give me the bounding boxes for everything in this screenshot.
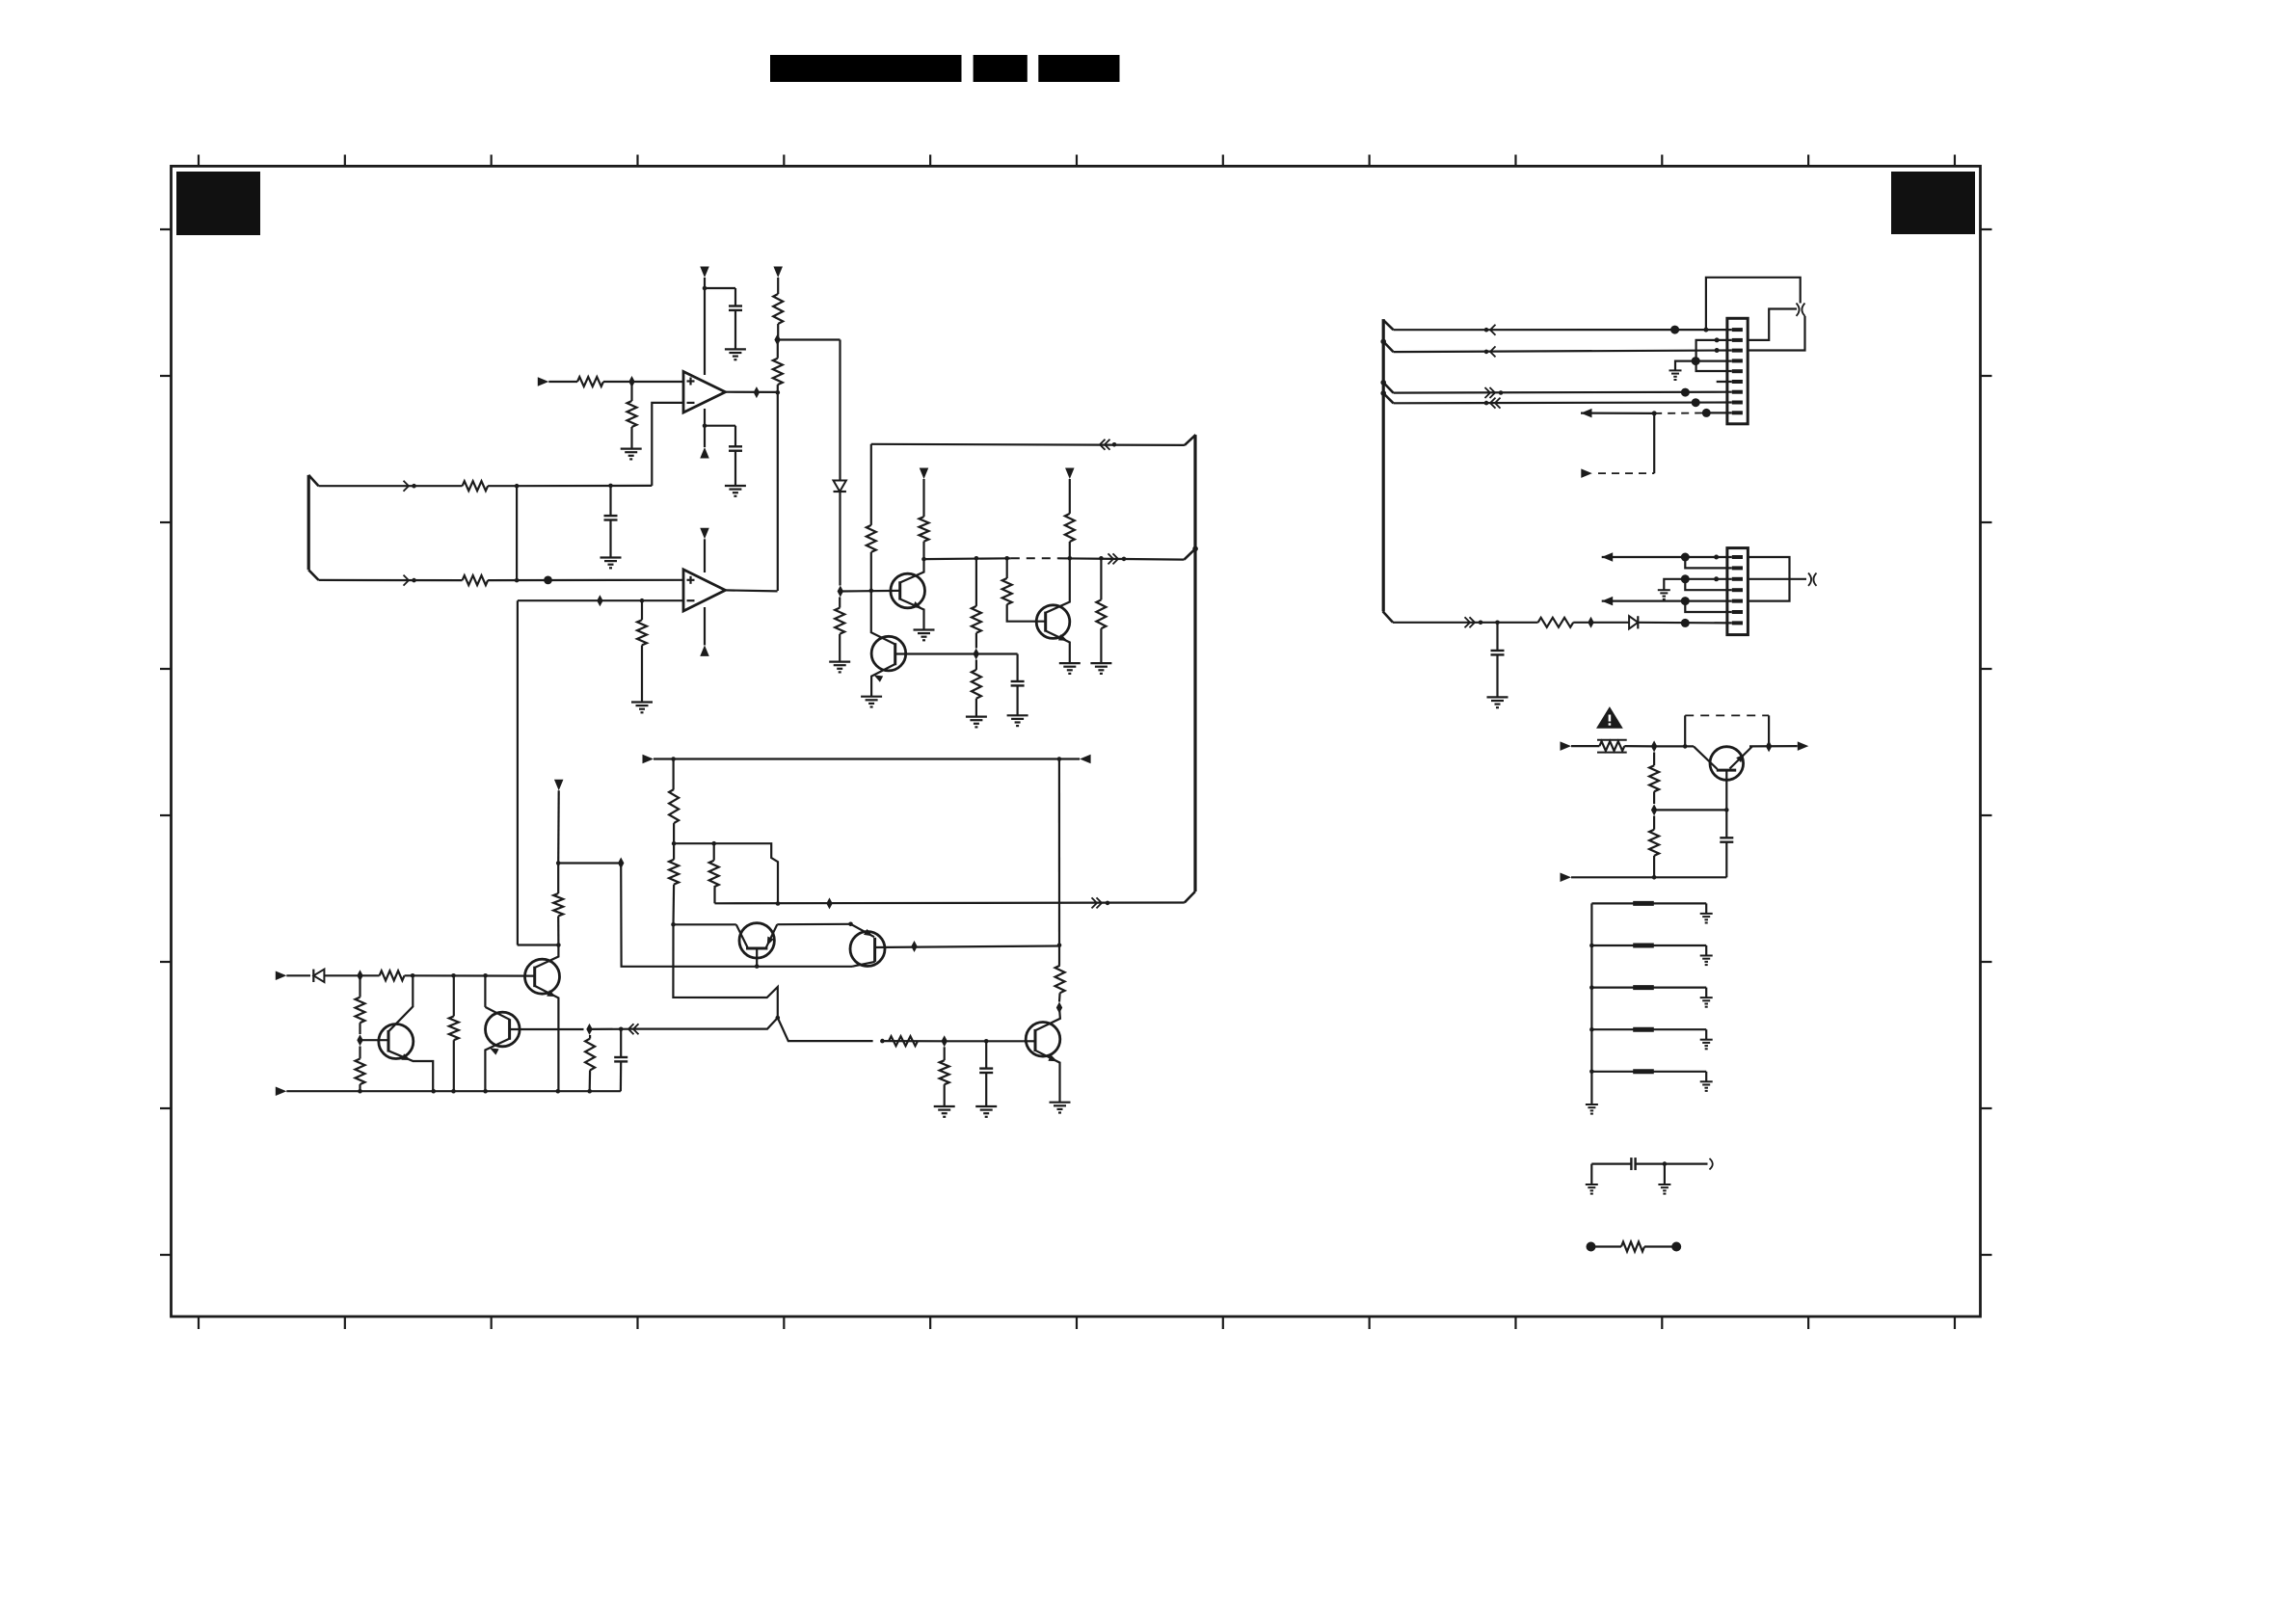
junction dot J19	[776, 1016, 781, 1021]
Q7 base row	[1023, 1040, 1035, 1042]
resistor R20	[557, 917, 559, 945]
resistor R11	[972, 606, 981, 633]
resistor R26	[1058, 945, 1060, 966]
bus bottom chamfer	[1185, 891, 1195, 903]
Q8 emitter	[766, 924, 777, 947]
junction dot J25	[556, 861, 561, 865]
ladder bus	[1590, 903, 1592, 1104]
diode D2	[312, 970, 314, 982]
resistor R23	[453, 975, 455, 1016]
transistor Q3	[1036, 605, 1070, 639]
ground for C2	[725, 485, 746, 487]
pin2 loop right	[1748, 309, 1797, 340]
ground ladder bus	[1586, 1104, 1598, 1105]
wire to C2	[705, 425, 735, 427]
wire bus bottom to R16	[715, 901, 1185, 904]
Q8 base bar	[746, 947, 767, 950]
wire X1-w3	[1383, 383, 1393, 393]
resistor R19	[380, 971, 405, 980]
resistor R30	[1653, 753, 1655, 766]
junction dot for C5	[619, 1027, 624, 1032]
branch to Q4 base row	[630, 1018, 778, 1029]
big dot pin2/pin4 cross	[1692, 357, 1700, 365]
bus junction dot	[1192, 546, 1198, 552]
junction dot B2	[431, 1089, 436, 1094]
arrow (<<) on bus wire	[1100, 439, 1106, 450]
input arrow IN1	[538, 377, 549, 386]
resistor R2	[630, 382, 632, 401]
connector X2	[1727, 548, 1749, 635]
op-amp U1	[683, 372, 726, 413]
wire to bus top	[871, 444, 1185, 445]
resistor R14	[1065, 514, 1075, 542]
X2 pin1-pin5 right loop	[1748, 557, 1789, 601]
arrow (<<) on w4	[1490, 398, 1496, 409]
power arrow (V+) above U2	[700, 528, 709, 540]
Q5L emitter	[388, 1051, 433, 1091]
resistor R17	[672, 759, 674, 790]
ground left of C9	[1586, 1184, 1598, 1185]
wire Q4 collector column	[484, 975, 486, 1007]
junction dot J50	[1663, 1161, 1668, 1166]
power arrow (V+) above U1	[700, 267, 709, 279]
big dot w3/pin7	[1681, 388, 1690, 397]
junction dot J49	[1652, 875, 1657, 880]
node diamond feeding diode line	[774, 334, 780, 346]
arrow (>>) on bottom wire	[1097, 897, 1103, 908]
junction dot Q9 emitter	[848, 922, 853, 927]
arrow on W1	[404, 481, 410, 492]
small dot pin9 row	[1652, 411, 1657, 415]
transistor Q7	[1026, 1023, 1060, 1057]
resistor R32	[1591, 1245, 1622, 1247]
Q6 base bar	[533, 967, 536, 987]
tie vertical W1-W2	[516, 486, 518, 580]
Q10 base lead	[1725, 770, 1727, 810]
coupler arcs X2	[1808, 573, 1811, 586]
junction dot J32	[984, 1039, 989, 1044]
big dot pin9	[1702, 409, 1711, 417]
resistor R12	[975, 660, 977, 670]
transistor Q8 (rotated PNP)	[739, 923, 774, 958]
wire diamond to Q1 base	[841, 590, 900, 593]
resistor R13	[1006, 558, 1008, 578]
coupler arcs X1 top	[1797, 304, 1800, 316]
node diamond below D1	[838, 586, 843, 598]
Q7 collector	[1035, 1008, 1060, 1031]
resistor R21	[359, 975, 360, 997]
X2 pin3 wire	[1664, 579, 1732, 590]
Q10 emitter	[1730, 746, 1753, 768]
op-amp U2	[683, 570, 726, 611]
ground for R2	[621, 448, 642, 450]
Q5L base bar	[387, 1030, 390, 1052]
Q9 base bar	[873, 938, 876, 962]
output arrow OUT1	[1798, 741, 1809, 751]
node diamond on R1 output	[628, 376, 634, 387]
input arrow IN3	[276, 1086, 287, 1096]
node diamond on bottom wire	[826, 897, 832, 909]
arrow on W2	[404, 575, 410, 586]
junction dot J20	[411, 973, 415, 978]
connector X1	[1727, 318, 1748, 424]
resistor R28	[944, 1047, 946, 1060]
Q4 emitter	[485, 1039, 509, 1091]
ground X2 pin3	[1658, 589, 1670, 591]
arrow (>>) on rail	[1113, 553, 1119, 564]
ground X1 pin4	[1669, 369, 1682, 371]
node diamond D8	[357, 970, 362, 981]
junction dot x807	[776, 901, 781, 906]
big dot w1	[1670, 326, 1679, 334]
feedback vertical to U2 output	[777, 392, 779, 591]
ground for Q3 emitter	[1059, 662, 1081, 664]
node diamond Q2 base	[974, 649, 979, 660]
Q3 emitter	[1046, 631, 1070, 664]
diode D1	[839, 340, 841, 481]
wire from diamond to diode column	[778, 338, 841, 340]
big dot X2 pin1	[1681, 553, 1690, 562]
test point TP2	[1671, 1242, 1681, 1252]
arrow (<) on w1	[1490, 325, 1496, 335]
node diamond D10	[357, 1034, 362, 1046]
Q6 emitter	[535, 986, 559, 1091]
link wire to x807	[714, 843, 778, 903]
junction dot for C3	[608, 484, 613, 489]
bus bracket (left)	[307, 475, 310, 570]
junction dot rail/R13	[1004, 556, 1009, 561]
junction dot B6	[587, 1089, 592, 1094]
Q4 base row wire	[510, 1028, 584, 1030]
X2 pin4 wire	[1685, 579, 1732, 590]
wire W2 (lower feed)	[319, 579, 463, 581]
arrow IN4 end (left)	[1080, 755, 1091, 764]
capacitor C1	[729, 305, 742, 306]
frame border	[172, 166, 1981, 1317]
small dot pin2	[1715, 337, 1720, 342]
resistor R15	[1100, 558, 1102, 599]
bus2 junction dot 3	[1380, 390, 1386, 396]
ground for C4	[1007, 714, 1028, 716]
wire J25 to diamond	[558, 862, 621, 864]
U2 negative supply wire	[704, 607, 706, 645]
resistor R1	[577, 377, 603, 386]
node diamond D13	[1056, 1002, 1062, 1014]
ground below J50	[1664, 1164, 1666, 1184]
wire W1 (upper feed)	[319, 485, 463, 487]
junction dot J23	[556, 943, 561, 947]
wire y959 left	[674, 923, 736, 925]
node dot U1 output	[776, 390, 781, 395]
junction dot rail/R15	[1099, 556, 1104, 561]
Q7 emitter	[1035, 1051, 1060, 1103]
Q1 emitter	[900, 599, 924, 630]
junction dot for R5	[640, 599, 645, 603]
wire y875	[674, 842, 714, 844]
resistor R22	[359, 1047, 360, 1059]
resistor R31	[1653, 816, 1655, 830]
arrow in (right) dashed row	[1581, 468, 1592, 478]
junction dot J47	[1683, 744, 1688, 749]
wire base row	[882, 1040, 944, 1042]
small dot w2/pin3	[1715, 348, 1720, 353]
wire D10 to Q5 base	[360, 1039, 389, 1041]
jumper link L4 with ground	[1591, 1028, 1706, 1030]
node diamond D11	[586, 1024, 592, 1035]
big dot X2 pin3	[1681, 574, 1690, 583]
pin1 loop up to coupler	[1706, 278, 1801, 330]
capacitor C6	[985, 1041, 987, 1068]
wire to C1	[705, 287, 735, 289]
ground for C3	[601, 556, 622, 558]
bus entry chamfer mid	[1185, 548, 1196, 559]
jumper link L3 with ground	[1591, 986, 1706, 988]
X2 pin2 wire	[1685, 557, 1732, 568]
capacitor C3	[609, 486, 611, 516]
arrow (<<) on Q4 base row	[628, 1024, 634, 1034]
rail wire y579 right	[1058, 558, 1185, 559]
Q2 emitter	[871, 664, 895, 697]
arrow (>>) dot	[880, 1039, 885, 1044]
wire D11 right	[590, 1028, 631, 1030]
junction dot W1/tie	[515, 484, 520, 489]
arrow (>>) on w3	[1490, 387, 1496, 398]
power arrow (V-) below U1	[700, 447, 709, 459]
test point TP1	[1587, 1242, 1596, 1252]
warning triangle	[1598, 708, 1621, 728]
grid label box top-right	[1891, 172, 1975, 234]
resistor R4	[777, 340, 779, 359]
vertical bus line	[1193, 435, 1196, 891]
capacitor C8	[1725, 810, 1727, 838]
resistor R7	[463, 575, 489, 585]
U2 inverting input wire	[518, 599, 683, 601]
transistor Q5L	[379, 1024, 414, 1059]
Q3 collector	[1046, 558, 1070, 613]
wire to coupler arc	[1665, 1162, 1708, 1164]
Q1 base bar	[898, 581, 901, 599]
junction dot B4	[483, 1089, 488, 1094]
arrow (<) on w2	[1490, 346, 1496, 357]
resistor R3	[777, 278, 779, 294]
junction dot Q1 base column	[869, 589, 874, 594]
big dot X2 pin5	[1681, 597, 1690, 605]
junction dot y875 right	[711, 841, 716, 846]
X2 pin6 wire	[1685, 601, 1732, 612]
arrow out X2 pin5	[1602, 597, 1614, 606]
junction dot J22	[483, 973, 488, 978]
arrow (>>) on pin7 feed	[1470, 617, 1476, 627]
ground for R28	[934, 1105, 955, 1107]
Q2 collector	[871, 591, 895, 645]
Q3 base bar	[1044, 612, 1047, 632]
ground for R8	[829, 660, 850, 662]
power arrow (V+) over R10	[920, 468, 929, 480]
transistor Q1	[891, 573, 925, 608]
resistor R9	[867, 525, 876, 552]
junction dot J31	[671, 757, 676, 761]
vertical IN4 to Q7	[1058, 759, 1060, 945]
ground for C6	[975, 1105, 997, 1107]
junction dot rail/Q3	[1068, 556, 1073, 561]
transistor Q2	[871, 636, 906, 671]
Q10 collector	[1694, 746, 1718, 769]
jumper link L1 with ground	[1591, 902, 1706, 904]
Q7 base bar	[1034, 1029, 1037, 1051]
big dot X2 pin7	[1681, 619, 1690, 627]
capacitor C9	[1591, 1162, 1631, 1164]
Q10 base bar	[1717, 769, 1736, 772]
Q1 collector	[900, 559, 924, 582]
node diamond D12	[911, 941, 917, 952]
junction dot J21	[451, 973, 456, 978]
pin4 wire + ground	[1675, 361, 1732, 371]
bus entry chamfer	[1185, 435, 1196, 445]
Q4 base bar	[508, 1019, 511, 1040]
U1 inverting input wire	[652, 403, 683, 486]
node diamond D15	[1588, 617, 1593, 628]
jumper link L5 with ground	[1591, 1071, 1706, 1073]
small dot X2 pin3	[1714, 576, 1719, 581]
transistor Q4 (mid)	[486, 1012, 521, 1047]
capacitor C5	[620, 1029, 622, 1057]
ground for Q7 emitter	[1050, 1102, 1071, 1104]
U1 positive supply wire	[704, 278, 706, 375]
resistor R29	[1538, 618, 1574, 627]
U2 positive supply wire	[704, 539, 706, 572]
arrow out X2 pin1	[1602, 552, 1614, 562]
junction dot J18	[671, 922, 676, 927]
U1 output wire with diamond	[726, 391, 778, 393]
coupler arc (single)	[1710, 1158, 1713, 1170]
wire X1-w1	[1383, 320, 1393, 330]
dashed feedback loop	[1684, 715, 1686, 746]
ground for C1	[725, 348, 746, 350]
dashed rail segment	[1011, 557, 1058, 559]
wire X1-w2	[1383, 341, 1393, 352]
big dot w4/pin8	[1692, 398, 1700, 407]
junction dot J30	[1057, 757, 1062, 761]
resistor R6	[463, 481, 489, 491]
branch to Q7 base row	[778, 1018, 873, 1041]
ground for R15	[1090, 662, 1111, 664]
small dot X2 pin1	[1714, 555, 1719, 560]
pin2 wire left	[1696, 340, 1732, 371]
title bar 2 (redacted text)	[974, 55, 1028, 82]
Q8 collector	[736, 924, 748, 947]
junction dot B5	[556, 1089, 561, 1094]
dashed branch down	[1653, 413, 1655, 473]
ground for R5	[631, 701, 653, 703]
transistor Q6	[525, 959, 560, 994]
resistor R10	[920, 517, 929, 542]
X2 pin5 wire	[1602, 599, 1732, 601]
input arrow IN4	[643, 755, 654, 764]
Q9 collector	[852, 962, 875, 967]
U1 negative supply wire	[704, 409, 706, 426]
transistor Q9 (PNP)	[850, 932, 885, 967]
junction dot J48	[1724, 808, 1729, 812]
node diamond D14	[942, 1035, 948, 1047]
Q6 collector	[535, 945, 559, 969]
resistor R16	[713, 887, 715, 903]
node diamond D16	[1651, 740, 1657, 752]
junction dot J29	[1057, 943, 1062, 947]
capacitor C7	[1496, 623, 1498, 651]
junction dot below U1	[703, 423, 707, 428]
power arrow (V+) over R14	[1065, 468, 1075, 480]
Q8 base lead	[756, 948, 758, 967]
wire J18 down-around	[673, 924, 777, 1018]
pin3 loop right	[1748, 316, 1804, 351]
junction dot for C7	[1495, 621, 1500, 625]
junction dot B1	[358, 1089, 362, 1094]
X2 pin7 feed wire	[1393, 622, 1538, 624]
junction dot W2/tie	[515, 578, 520, 583]
junction dot rail/R11	[974, 556, 979, 561]
X2 pin3 coupler wire	[1748, 578, 1806, 580]
node diamond D18	[1651, 804, 1657, 815]
wire X1-w4	[1383, 393, 1393, 403]
ground for C7	[1487, 696, 1508, 698]
bus2 junction dot 2	[1380, 380, 1386, 386]
pin6 stub	[1717, 381, 1732, 383]
resistor R25	[589, 1035, 591, 1039]
Q4 collector	[485, 1007, 509, 1020]
resistor R27	[889, 1036, 918, 1046]
input arrow IN2	[276, 971, 287, 981]
node dot (large) on W2	[544, 576, 552, 585]
arrow out (left) pin9 row	[1581, 409, 1592, 418]
node diamond D17	[1766, 740, 1772, 752]
wire to R19	[360, 974, 380, 976]
wire W1 continue	[517, 485, 652, 488]
bus2 junction dot 1	[1380, 339, 1386, 345]
wire to bus (upper left)	[870, 552, 872, 591]
ground for R12	[966, 715, 987, 717]
title bar 3 (redacted text)	[1038, 55, 1119, 82]
Q5L collector	[388, 975, 413, 1031]
wire Q2 base row	[895, 652, 976, 654]
node diamond on U2 inverting wire	[597, 595, 602, 606]
Q9 emitter	[851, 924, 875, 937]
transistor Q10 (pass)	[1710, 747, 1744, 781]
ground for Q1 emitter	[914, 628, 935, 630]
wire down to base row	[621, 864, 852, 967]
bus2 bottom chamfer	[1383, 611, 1393, 622]
title bar 1 (redacted text)	[770, 55, 962, 82]
Q2 base bar	[894, 643, 896, 665]
power arrow (V-) below U2	[700, 645, 709, 656]
power arrow (V+) right column	[773, 267, 783, 279]
resistor R18	[673, 843, 675, 860]
input arrow IN5	[1561, 741, 1572, 751]
junction dot Q1 collector	[921, 557, 926, 562]
diode D3	[1629, 616, 1638, 628]
fusible resistor F1	[1599, 741, 1624, 751]
grid label box top-left	[176, 172, 260, 235]
resistor R5	[641, 600, 643, 620]
junction dot y875 left	[672, 841, 677, 846]
jumper link L2 with ground	[1591, 945, 1706, 946]
capacitor C2	[729, 445, 742, 447]
junction dot B3	[451, 1089, 456, 1094]
node diamond D9	[618, 858, 624, 869]
resistor R8	[839, 598, 841, 608]
junction dot on U1 V+ wire	[703, 286, 707, 291]
input arrow IN6	[1561, 873, 1572, 883]
pin9 dashed link	[1706, 412, 1732, 413]
